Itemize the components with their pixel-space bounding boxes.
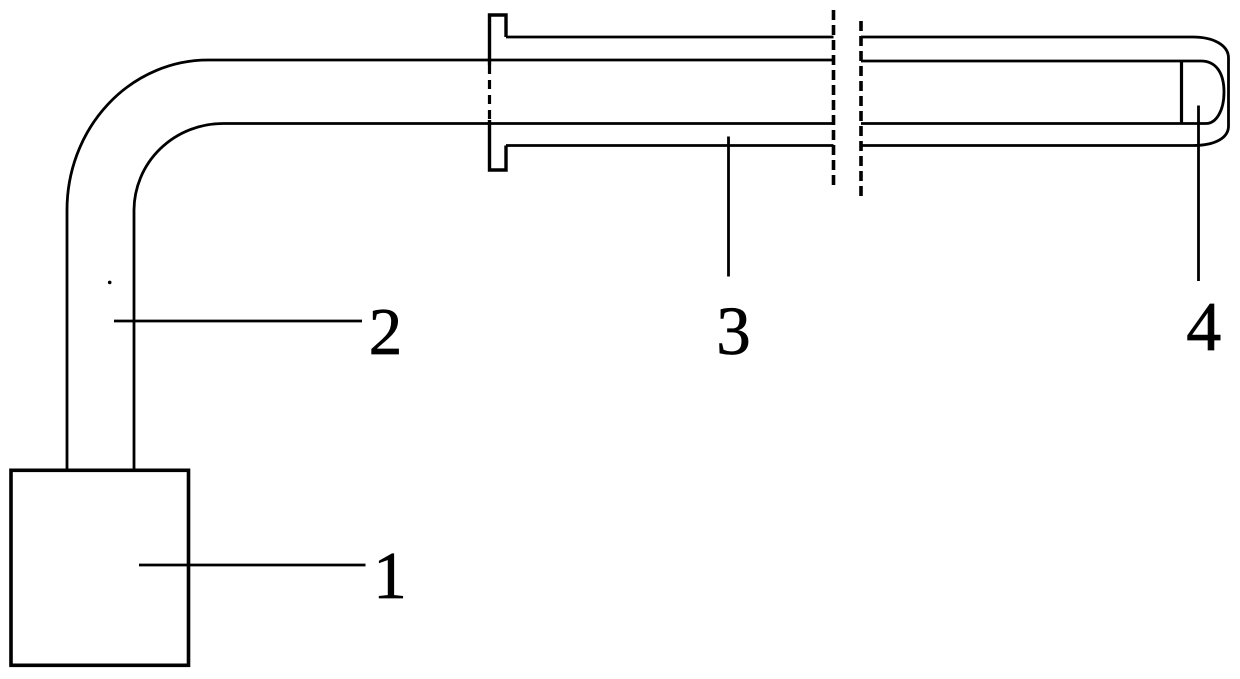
svg-text:2: 2 [369,295,403,369]
svg-text:3: 3 [716,293,751,369]
svg-text:1: 1 [373,539,407,613]
svg-text:4: 4 [1186,289,1221,366]
